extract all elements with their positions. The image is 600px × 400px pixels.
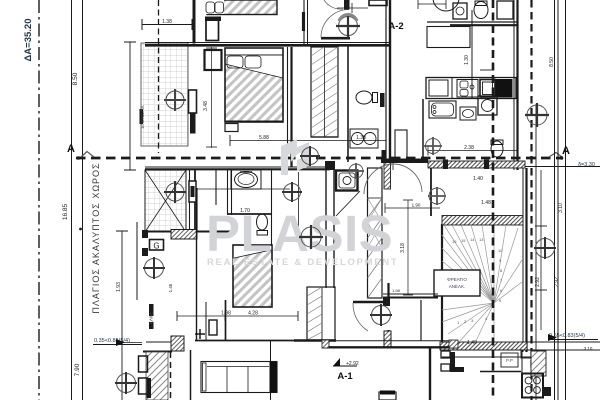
kitchen counter A-2 bbox=[426, 78, 516, 99]
svg-text:1.40: 1.40 bbox=[473, 176, 483, 182]
wall y=297 hall top bbox=[383, 293, 438, 295]
toilet A-1 bath bbox=[257, 214, 268, 235]
kitchen A-1 hatched bbox=[531, 351, 546, 376]
lamp stair right bbox=[536, 239, 555, 258]
svg-text:PLASIS: PLASIS bbox=[206, 205, 393, 262]
wall x=388.5 segments bbox=[387, 283, 389, 299]
lamp laundry small bbox=[424, 137, 442, 155]
bathtub laundry bbox=[429, 101, 456, 118]
wall x=193 double bbox=[189, 170, 196, 232]
vanity sink A-1 bath bbox=[231, 170, 261, 189]
toilet laundry room bbox=[491, 140, 503, 157]
stair treads fan bbox=[442, 225, 522, 341]
dining table A-2 bbox=[427, 27, 470, 48]
boundary dash-dot line left bbox=[38, 0, 40, 400]
stove bbox=[480, 80, 495, 98]
svg-text:A: A bbox=[67, 143, 75, 155]
nightstand bedroom2 left bbox=[205, 50, 222, 70]
wall y=347 hall bbox=[322, 340, 458, 342]
wall x=270 bbox=[271, 170, 273, 248]
door arc top room bbox=[324, 0, 343, 9]
thin line x=536 bbox=[535, 104, 537, 400]
dimension line y=140 bbox=[230, 135, 386, 146]
svg-text:4.28: 4.28 bbox=[248, 311, 258, 317]
lamp bottom left bbox=[117, 374, 136, 393]
lamp center bbox=[301, 227, 321, 247]
slope underline left bbox=[93, 339, 142, 346]
washing machine bbox=[478, 96, 497, 115]
dim line x=408 bbox=[407, 200, 409, 295]
wall x=388 double bbox=[386, 0, 390, 166]
svg-text:1.93: 1.93 bbox=[116, 282, 122, 292]
dashed line through bathroom bbox=[158, 0, 160, 153]
chair bottom bbox=[379, 391, 396, 400]
door arc A-1 entry bbox=[353, 302, 383, 331]
double sink vanity A-2 bath bbox=[350, 129, 378, 148]
svg-text:G: G bbox=[153, 242, 159, 251]
stair right wall bbox=[523, 168, 527, 352]
svg-text:ΚΛΙΜ.: ΚΛΙΜ. bbox=[149, 312, 154, 324]
bottom left walls bbox=[146, 341, 171, 343]
dot marker on dim line bbox=[79, 228, 82, 231]
wardrobe bottom A-1 bbox=[195, 287, 336, 400]
svg-text:1.48: 1.48 bbox=[481, 200, 491, 206]
shower A-1 bath bbox=[336, 171, 358, 191]
svg-text:2.38: 2.38 bbox=[464, 145, 474, 151]
wall x=228 bbox=[227, 170, 229, 215]
section arrow left bbox=[81, 152, 94, 158]
svg-text:ΠΛΑΓΙOΣ ΑΚΑΛΥΠΤOΣ ΧΩΡOΣ: ΠΛΑΓΙOΣ ΑΚΑΛΥΠΤOΣ ΧΩΡOΣ bbox=[91, 162, 101, 313]
main upper wall y=44 bbox=[145, 42, 390, 44]
line y=168.5 far right bbox=[525, 166, 600, 168]
svg-text:1.38: 1.38 bbox=[356, 135, 366, 141]
svg-text:3.18: 3.18 bbox=[400, 243, 406, 253]
WC top right: sink bbox=[453, 3, 467, 19]
dashed wall x=170.5 bottom bbox=[170, 352, 172, 400]
terrace room with X bbox=[145, 170, 186, 232]
svg-text:2.92: 2.92 bbox=[554, 277, 560, 287]
svg-text:1.98: 1.98 bbox=[392, 288, 401, 293]
sink laundry bbox=[460, 107, 476, 120]
svg-text:0.35<0.8δ(5/4): 0.35<0.8δ(5/4) bbox=[94, 338, 130, 344]
wall x=348 bbox=[347, 44, 349, 162]
svg-text:1.90: 1.90 bbox=[412, 203, 421, 208]
wall x=522 bbox=[521, 350, 523, 396]
wall y=168 below section left bbox=[145, 166, 330, 168]
svg-text:1.98: 1.98 bbox=[221, 311, 231, 317]
line y=350 bottom right bbox=[450, 349, 600, 351]
door leaf diagonal corridor bbox=[336, 191, 360, 216]
lamp A-1 bath bbox=[284, 184, 301, 201]
wall x=216 bbox=[215, 170, 217, 205]
nightstand bedroom1 bbox=[206, 18, 219, 41]
double wall x=330 bbox=[326, 168, 334, 288]
wall x=225 lower bbox=[225, 300, 227, 341]
wall y=371.5 bbox=[480, 371, 521, 373]
svg-text:A: A bbox=[562, 145, 570, 157]
wall y=166 right segment bbox=[381, 159, 428, 164]
shower top right bbox=[497, 1, 513, 19]
wall x=194 bedroom1/bath bbox=[193, 0, 196, 44]
svg-text:ΑΝΕΛΚ.: ΑΝΕΛΚ. bbox=[449, 284, 466, 289]
bathroom floor tiles top-left bbox=[141, 43, 188, 146]
stair tread numbers bbox=[452, 237, 503, 325]
wall x=190.5 bottom bbox=[190, 350, 192, 400]
bench corridor bbox=[395, 130, 407, 162]
svg-text:1.70: 1.70 bbox=[240, 208, 250, 214]
top dim marks bbox=[337, 0, 446, 13]
stair left wall bbox=[441, 224, 443, 342]
svg-text:13: 13 bbox=[479, 237, 484, 242]
dim line x=211.5 bbox=[211, 47, 213, 148]
svg-text:7.90: 7.90 bbox=[74, 363, 81, 376]
dimension line x=122 bottom bbox=[116, 231, 128, 400]
svg-text:8.50: 8.50 bbox=[72, 72, 79, 85]
svg-text:1.45: 1.45 bbox=[168, 283, 173, 292]
svg-text:5.88: 5.88 bbox=[259, 135, 269, 141]
wall x=196 stairwell right bbox=[196, 190, 198, 341]
wall y=22 top right bbox=[427, 21, 517, 23]
door jamb black bar bbox=[380, 93, 385, 107]
svg-text:1.40: 1.40 bbox=[467, 340, 477, 346]
ramp hatch bottom left bbox=[146, 352, 168, 400]
svg-text:3.10: 3.10 bbox=[558, 203, 564, 213]
tick top right dim bbox=[480, 69, 492, 71]
bed 3 hatched bbox=[233, 245, 272, 307]
svg-text:3.10: 3.10 bbox=[584, 346, 593, 351]
dim line y=208 bbox=[385, 207, 440, 209]
black marks left of tiles bbox=[140, 109, 144, 124]
hatched wall strip x=387 bbox=[384, 161, 391, 189]
dim line y=150 laundry bbox=[428, 146, 517, 156]
black bits left wall bbox=[149, 304, 154, 316]
toilet A-2 bath bbox=[356, 91, 378, 104]
stove A-1 bbox=[522, 374, 543, 398]
svg-text:δ=3,30: δ=3,30 bbox=[578, 162, 595, 168]
dim line y=316 bbox=[177, 311, 298, 321]
svg-text:1.30: 1.30 bbox=[464, 55, 470, 65]
door leaf in wall x=194 bbox=[189, 90, 197, 113]
level flag A-1 bbox=[333, 358, 357, 366]
svg-text:15: 15 bbox=[461, 238, 466, 243]
sink unit bbox=[457, 80, 478, 98]
level marker A-1 bbox=[346, 361, 359, 367]
bold dashed line x=493 bbox=[492, 0, 495, 400]
light symbols (circle-cross) bbox=[336, 14, 360, 38]
watermark logo bbox=[281, 139, 309, 175]
svg-text:ΦΡΕΑΤΙΟ: ΦΡΕΑΤΙΟ bbox=[447, 277, 467, 282]
svg-text:1.38: 1.38 bbox=[162, 19, 172, 25]
foot bench bedroom2 bbox=[225, 124, 238, 132]
door frames bottom far left bbox=[139, 356, 148, 372]
dimension line x=130 top bbox=[124, 42, 136, 170]
wall x=304 left of hall A-2 bbox=[304, 0, 308, 44]
black jamb A-1 entry bbox=[383, 298, 390, 306]
kitchen A-1: PP box bbox=[501, 353, 518, 367]
thin wall x=472 bbox=[471, 10, 473, 98]
door arc A-2 entry bbox=[321, 10, 350, 39]
lamp bathroom1 terrace bbox=[166, 183, 184, 201]
lamp bathroom1 bbox=[164, 89, 186, 111]
lamp right top bbox=[527, 105, 547, 125]
property line x=558 bbox=[557, 0, 559, 400]
hatched slab band right of it bbox=[428, 161, 525, 168]
wall x=291 right of bedroom1 bbox=[288, 47, 292, 167]
bed 2 bedroom2 bbox=[225, 48, 283, 122]
svg-text:3.48: 3.48 bbox=[203, 101, 209, 111]
black appliance bbox=[496, 79, 513, 98]
hatched block bbox=[171, 336, 184, 351]
G box bbox=[150, 240, 164, 251]
svg-text:8.50: 8.50 bbox=[549, 57, 555, 67]
stair top hatched band bbox=[442, 216, 523, 226]
lamp hall right bbox=[428, 187, 446, 205]
property line x=554.5 bbox=[554, 0, 556, 400]
black wall chunks bottom stair bbox=[450, 352, 455, 372]
cabinet top room bbox=[369, 0, 387, 6]
stair bottom hatched band bbox=[440, 342, 527, 350]
wall x=423 bbox=[422, 99, 424, 158]
dimension line x=82.5 bbox=[82, 0, 84, 400]
round table top A-2 bbox=[433, 0, 459, 11]
top dimension line 1.38 bbox=[142, 19, 192, 30]
corridor double door arcs bbox=[364, 163, 422, 194]
svg-text:A-2: A-2 bbox=[388, 21, 403, 32]
shelving strip tall bbox=[368, 168, 383, 298]
wall x=515 double right bbox=[514, 0, 518, 170]
svg-text:16.85: 16.85 bbox=[62, 203, 69, 220]
svg-text:16: 16 bbox=[452, 239, 457, 244]
wall x=137 segment bbox=[136, 222, 138, 300]
hatched block below door bbox=[384, 331, 391, 347]
slope underline right bbox=[548, 334, 598, 341]
wall y=231 with hatched block bbox=[145, 230, 232, 240]
svg-text:ΕΠΕΝΔ.ΠΛ: ΕΠΕΝΔ.ΠΛ bbox=[140, 105, 145, 128]
svg-text:14: 14 bbox=[470, 237, 475, 242]
lamp corridor bbox=[302, 148, 319, 165]
thin dashed line x=531.5 bbox=[530, 0, 532, 400]
lamp left mid bbox=[145, 259, 164, 278]
lamp A-1 entry bbox=[372, 306, 391, 325]
section line A-A thick dashed bbox=[76, 157, 563, 160]
svg-text:P.P: P.P bbox=[506, 358, 513, 363]
wall x=430 bottom bbox=[429, 347, 431, 400]
dimension line x=71.5 bbox=[71, 0, 73, 400]
window frames right bbox=[441, 351, 450, 358]
svg-text:A-1: A-1 bbox=[337, 371, 353, 382]
line y=342 right bbox=[527, 341, 600, 343]
WC top right: toilet bbox=[474, 1, 488, 19]
wardrobe hall A-2 bbox=[311, 47, 338, 137]
sofa bbox=[201, 362, 277, 393]
svg-text:2.92: 2.92 bbox=[535, 277, 541, 287]
lamp corridor A-1 small bbox=[348, 163, 364, 179]
dim line x=541 bbox=[535, 170, 547, 330]
property line x=565.5 bbox=[565, 0, 567, 400]
elevator shaft box bbox=[434, 270, 480, 296]
black chunk right of stove bbox=[542, 387, 551, 396]
svg-text:ΔΑ=35.20: ΔΑ=35.20 bbox=[23, 18, 34, 61]
bed 1 hatched top bbox=[205, 0, 277, 21]
svg-text:10: 10 bbox=[498, 248, 503, 253]
door jamb top bbox=[345, 0, 350, 9]
svg-text:REAL ESTATE & DEVELOPMENT: REAL ESTATE & DEVELOPMENT bbox=[207, 257, 398, 268]
sink box bbox=[521, 350, 531, 358]
